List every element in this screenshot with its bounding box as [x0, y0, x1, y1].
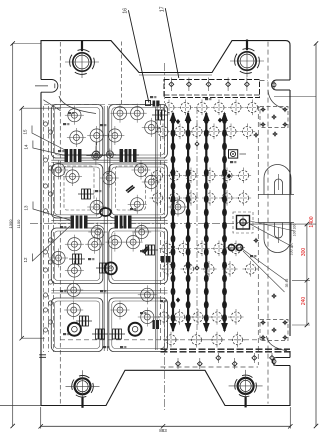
- screw hole L4: [90, 129, 103, 142]
- cavity block R4C2: [109, 298, 168, 352]
- label 15 leader: [32, 126, 69, 153]
- extension line top left: [13, 43, 41, 45]
- ejector hole row 7: [156, 309, 244, 325]
- right rect top mark 4: [282, 124, 287, 126]
- guide pin BR: [229, 370, 263, 408]
- fitting cluster 8: [146, 245, 149, 255]
- bottom diamond row2 3: [232, 361, 237, 366]
- small hole col 11: [43, 268, 47, 272]
- screw hole L9: [145, 175, 158, 188]
- chain side diamond 5: [171, 244, 175, 249]
- fitting cluster 3: [100, 263, 103, 273]
- ejector field dashed border: [161, 42, 269, 404]
- bottom diamond row2 1: [176, 361, 181, 366]
- screw hole L19: [67, 303, 80, 316]
- screw hole L6: [145, 121, 158, 134]
- dashed line y340: [60, 339, 265, 341]
- runner circle b: [106, 151, 113, 158]
- fitting cluster 4: [80, 316, 83, 326]
- interlock runner right: [120, 149, 137, 162]
- hidden dashed column 3: [53, 106, 55, 352]
- small hole col 5: [43, 184, 47, 188]
- datum leader 1: [250, 224, 293, 247]
- small hole col 6: [48, 192, 52, 196]
- fillet arc bottom right: [267, 336, 288, 351]
- interlock center right: [115, 216, 132, 229]
- hidden dashed column 2: [48, 106, 50, 352]
- dark blob left of field: [161, 256, 171, 263]
- screw hole L20: [141, 310, 154, 323]
- right rect bottom mark 1: [260, 322, 265, 324]
- label 13 leader: [33, 202, 70, 221]
- small hole col 10: [48, 260, 52, 264]
- extension line bottom right edge: [289, 407, 291, 429]
- fillet arc top left: [59, 96, 96, 114]
- svg-text:13: 13: [24, 205, 29, 211]
- screw hole L25: [135, 225, 148, 238]
- pocket dashed rect R2C2: [116, 166, 146, 210]
- datum leader 2: [250, 221, 295, 231]
- interlock center left: [71, 216, 88, 229]
- field pocket edge lines: [155, 106, 157, 350]
- extension line bottom left edge: [40, 407, 42, 429]
- field small diamond a: [195, 142, 199, 146]
- svg-text:1300: 1300: [8, 219, 13, 229]
- chain side diamond 4: [227, 173, 231, 178]
- dimension line right 300-240: [306, 224, 308, 325]
- notch arrow mark lower: [272, 360, 276, 364]
- small hole col 1: [43, 122, 47, 126]
- small hole col 12: [48, 280, 52, 284]
- small hole col 8: [48, 238, 52, 242]
- small hole col 15: [43, 308, 47, 312]
- dimension line right 1400: [315, 44, 317, 427]
- right margin mark a: [253, 134, 258, 136]
- screw hole L24: [91, 225, 104, 238]
- runner circle a: [93, 151, 100, 158]
- hidden dashed column 1: [43, 106, 45, 352]
- fitting cluster band left: [153, 101, 160, 107]
- cavity block R2C2: [109, 164, 168, 218]
- right rect bottom mark 5: [271, 329, 276, 331]
- chain side diamond 1: [176, 119, 180, 124]
- screw hole L15: [127, 236, 140, 249]
- screw hole L14: [108, 236, 121, 249]
- center circle row3: [171, 200, 185, 214]
- ejector pin chain 1: [170, 112, 177, 333]
- screw hole L2: [131, 107, 144, 120]
- cavity block R1C2: [109, 105, 168, 159]
- guide pin BL: [66, 370, 100, 408]
- block row gap lines 3: [51, 291, 167, 294]
- right rect bottom mark 2: [282, 322, 287, 324]
- dimension line bottom 883: [41, 425, 291, 427]
- svg-text:17: 17: [160, 6, 166, 12]
- bold circle C: [129, 323, 142, 336]
- screw hole L21: [113, 107, 126, 120]
- ejector hole row 6: [160, 261, 259, 277]
- label 12 leader: [33, 226, 71, 261]
- top band diamond 3: [206, 82, 211, 87]
- bottom diamond row1 1: [216, 356, 221, 361]
- hidden edge dashed top: [121, 42, 123, 109]
- right rect bottom mark 3: [260, 337, 265, 339]
- plate outline: [41, 41, 290, 406]
- screw hole L17: [141, 288, 154, 301]
- top band diamond 5: [245, 82, 250, 87]
- small hole col 4: [48, 166, 52, 170]
- bottom diamond row2 2: [197, 361, 202, 366]
- svg-text:240: 240: [301, 297, 307, 306]
- screw hole L1: [68, 109, 81, 122]
- top band diamond 4: [226, 82, 231, 87]
- svg-text:15: 15: [23, 129, 28, 135]
- x-mark pair: [143, 247, 150, 254]
- notch diagonal: [43, 100, 60, 111]
- ejector hole row 8: [163, 332, 246, 348]
- ejector pin chain 3: [203, 112, 210, 333]
- right margin mark d: [271, 295, 276, 297]
- leader 16 target mark: [146, 101, 151, 106]
- center circle row1: [92, 152, 100, 160]
- ejector hole row 3: [150, 168, 252, 184]
- block row gap lines 2: [51, 221, 167, 223]
- notch arrow mark: [272, 83, 276, 87]
- label 16 leader: [128, 10, 149, 102]
- right rect bottom mark 4: [282, 337, 287, 339]
- small hole col 7: [43, 209, 47, 213]
- screw hole L12: [68, 238, 81, 251]
- dimension line left 1100: [21, 108, 23, 338]
- screw hole L11: [131, 198, 144, 211]
- runner branch up: [95, 142, 97, 151]
- field top band: [164, 80, 260, 98]
- fitting cluster 6: [113, 329, 116, 339]
- dip second line: [139, 74, 212, 76]
- ejector hole row 5: [159, 241, 244, 257]
- right rect top mark 5: [271, 116, 276, 118]
- svg-text:14: 14: [23, 144, 28, 150]
- cavity block R3C1: [51, 228, 103, 284]
- twin leader 2: [243, 251, 285, 292]
- screw hole L7: [66, 170, 79, 183]
- pry notch right upper: [272, 80, 291, 90]
- field small diamond b: [195, 266, 199, 270]
- dark blob field left lower: [153, 320, 160, 329]
- ejector pin chain 2: [185, 112, 192, 333]
- screw hole L10: [90, 200, 103, 213]
- support lug upper: [264, 165, 291, 195]
- ejector hole row 4: [150, 190, 252, 206]
- screw hole L23: [134, 163, 147, 176]
- fitting cluster 5: [96, 329, 99, 339]
- cavity block R1C1: [51, 105, 103, 159]
- fillet arc top right: [268, 90, 284, 109]
- small hole col 9: [43, 250, 47, 254]
- horizontal centerline: [30, 222, 250, 224]
- dashed line blocks top: [44, 104, 160, 106]
- bold circle A: [105, 262, 117, 274]
- cavity block R4C1: [51, 298, 103, 352]
- ejector pin chain 4: [221, 112, 228, 333]
- right margin mark c: [253, 240, 258, 242]
- fitting cluster 1: [82, 189, 85, 199]
- screw hole L5: [108, 129, 121, 142]
- right rect top mark 1: [260, 109, 265, 111]
- extension line bottom left: [0, 405, 41, 407]
- interlock runner left: [65, 149, 82, 162]
- screw hole L3: [70, 131, 83, 144]
- svg-text:300: 300: [301, 248, 307, 257]
- right margin dashed rect top: [260, 107, 288, 128]
- tiny annotation specks: [63, 123, 66, 125]
- small hole col 14: [48, 301, 52, 305]
- fitting cluster 2: [73, 254, 76, 264]
- pry notch right lower: [273, 358, 291, 366]
- small hole col 17: [43, 328, 47, 332]
- field bottom band: [161, 349, 291, 352]
- screw hole L27: [113, 303, 126, 316]
- svg-text:16: 16: [123, 8, 129, 14]
- extension line right top: [274, 96, 316, 98]
- right margin dashed rect bottom: [260, 320, 288, 341]
- right rect top mark 2: [282, 109, 287, 111]
- extension line right 325: [292, 324, 310, 326]
- svg-text:35 45: 35 45: [285, 279, 289, 288]
- runner branch: [106, 158, 110, 174]
- bold circle B: [68, 323, 81, 336]
- field centerline 2: [196, 108, 198, 332]
- runner line: [62, 154, 139, 156]
- extension line 1100 bottom: [22, 337, 45, 339]
- extension line right 280: [292, 279, 310, 281]
- extension line right centerline: [250, 223, 316, 225]
- block row gap lines 1: [51, 160, 167, 162]
- pry notch left: [41, 80, 58, 93]
- equal mark left edge: [39, 355, 46, 358]
- twin circles symbol: [228, 244, 234, 250]
- svg-text:100 100: 100 100: [293, 224, 297, 237]
- cavity block R3C2: [109, 228, 168, 284]
- bold ellipse D: [100, 208, 111, 216]
- chain side diamond 2: [218, 118, 222, 123]
- bottom diamond row1 3: [270, 356, 275, 361]
- svg-text:1400: 1400: [309, 216, 315, 227]
- top band diamond 2: [187, 82, 192, 87]
- pocket dashed rect R2C1: [64, 166, 94, 210]
- svg-text:883: 883: [159, 428, 167, 433]
- label 14 leader: [33, 141, 72, 158]
- x-mark R2C2: [126, 186, 135, 193]
- datum symbol square: [233, 212, 253, 233]
- small hole col 13: [43, 293, 47, 297]
- label 17 leader: [165, 8, 179, 78]
- small hole col 2: [48, 130, 52, 134]
- extension line 1100 top: [22, 107, 60, 109]
- guide pin TR: [230, 40, 264, 78]
- screw hole L13: [88, 238, 101, 251]
- top band diamond 1: [169, 82, 174, 87]
- screw hole L22: [52, 163, 65, 176]
- support lug lower: [264, 223, 291, 253]
- twin leader 1: [243, 250, 287, 282]
- screw hole L18: [67, 283, 80, 296]
- fitting cluster 7: [156, 110, 159, 120]
- field bottom dashed: [161, 366, 259, 368]
- svg-text:12: 12: [23, 257, 28, 263]
- gate symbol: [229, 150, 238, 158]
- screw hole L16: [68, 264, 81, 277]
- dimension line left 1300: [12, 44, 14, 427]
- chain side diamond 3: [176, 297, 180, 302]
- dimension arrow ticks: [11, 41, 15, 45]
- ejector hole row 2: [155, 124, 256, 140]
- small hole col 16: [48, 320, 52, 324]
- vertical centerline: [164, 63, 166, 410]
- right margin mark b: [272, 133, 277, 135]
- small hole col 3: [43, 158, 47, 162]
- cavity block R2C1: [51, 164, 103, 218]
- hidden plate edge dashed: [59, 42, 61, 405]
- block column gap lines: [104, 106, 107, 351]
- svg-text:1100: 1100: [16, 219, 21, 228]
- right rect top mark 3: [260, 124, 265, 126]
- guide pin TL: [65, 41, 99, 79]
- bottom diamond row1 2: [252, 356, 257, 361]
- ejector hole row 1: [161, 100, 261, 116]
- screw hole L26: [52, 251, 65, 264]
- screw hole L8: [103, 171, 116, 184]
